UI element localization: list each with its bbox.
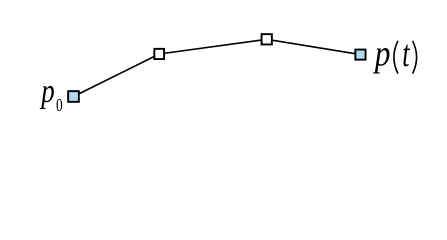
svg-text:p: p xyxy=(372,33,390,74)
svg-text:p: p xyxy=(39,72,54,110)
label p(t): letter p xyxy=(372,33,390,74)
node B marker (open square) xyxy=(154,49,164,59)
wire segment node C to p(t) xyxy=(267,39,361,54)
wire segment p0 to node B xyxy=(74,54,160,97)
label p(t): letter t xyxy=(402,33,410,75)
label p0: letter p xyxy=(39,72,54,110)
label p(t): close paren xyxy=(413,41,417,74)
label p0: subscript 0 xyxy=(56,96,63,115)
node p(t) marker (filled square) xyxy=(355,50,365,60)
wire segment node B to node C xyxy=(159,39,267,54)
svg-text:t: t xyxy=(402,33,410,75)
node p0 marker (filled square) xyxy=(68,91,79,102)
label p(t): open paren xyxy=(394,41,398,74)
svg-text:0: 0 xyxy=(56,96,63,115)
node C marker (open square) xyxy=(262,34,272,44)
